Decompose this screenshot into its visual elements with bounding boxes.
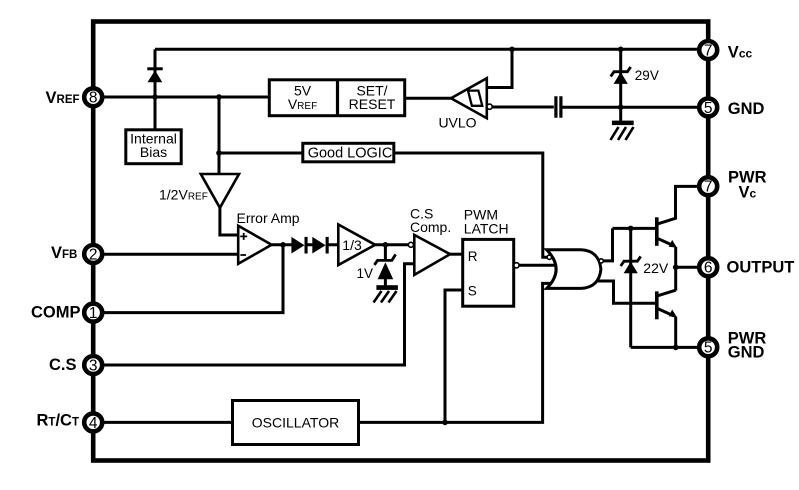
svg-text:Bias: Bias [140, 144, 167, 160]
svg-text:GND: GND [728, 343, 765, 361]
svg-text:4: 4 [89, 415, 98, 432]
svg-text:5: 5 [704, 100, 713, 117]
svg-text:OUTPUT: OUTPUT [727, 258, 795, 276]
svg-text:Comp.: Comp. [410, 219, 451, 235]
svg-text:COMP: COMP [31, 304, 81, 322]
svg-text:R: R [468, 249, 478, 264]
svg-text:1V: 1V [356, 266, 373, 281]
svg-text:GND: GND [728, 100, 765, 118]
svg-text:Error Amp: Error Amp [237, 210, 300, 226]
svg-text:6: 6 [704, 260, 713, 277]
svg-text:RESET: RESET [349, 96, 396, 112]
svg-text:29V: 29V [635, 68, 659, 83]
svg-text:Vcc: Vcc [728, 43, 753, 61]
svg-text:Good LOGIC: Good LOGIC [308, 146, 393, 162]
svg-text:1: 1 [89, 305, 98, 322]
svg-text:5: 5 [704, 340, 713, 357]
svg-text:7: 7 [704, 42, 713, 59]
svg-text:8: 8 [89, 90, 98, 107]
svg-text:22V: 22V [643, 260, 669, 276]
svg-text:S: S [468, 283, 477, 298]
svg-text:2: 2 [89, 246, 98, 263]
svg-text:Vc: Vc [739, 184, 757, 202]
svg-text:LATCH: LATCH [464, 220, 509, 236]
svg-text:OSCILLATOR: OSCILLATOR [252, 415, 339, 431]
svg-text:C.S: C.S [49, 356, 77, 374]
svg-text:7: 7 [704, 179, 713, 196]
svg-text:3: 3 [89, 357, 98, 374]
svg-text:UVLO: UVLO [438, 115, 476, 131]
svg-text:1/3: 1/3 [342, 237, 362, 253]
